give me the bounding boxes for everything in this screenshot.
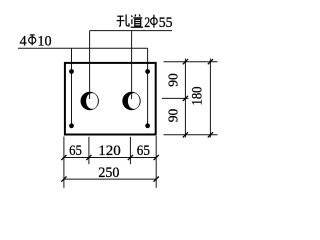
svg-text:180: 180 xyxy=(190,87,206,106)
svg-text:90: 90 xyxy=(165,73,180,87)
svg-text:250: 250 xyxy=(98,165,119,181)
svg-text:10: 10 xyxy=(37,34,51,50)
svg-text:65: 65 xyxy=(137,143,150,159)
svg-text:90: 90 xyxy=(165,109,180,123)
svg-text:55: 55 xyxy=(159,15,173,31)
svg-text:65: 65 xyxy=(69,143,82,159)
svg-text:2: 2 xyxy=(144,15,150,31)
svg-text:120: 120 xyxy=(98,143,121,159)
svg-text:4: 4 xyxy=(20,34,27,50)
